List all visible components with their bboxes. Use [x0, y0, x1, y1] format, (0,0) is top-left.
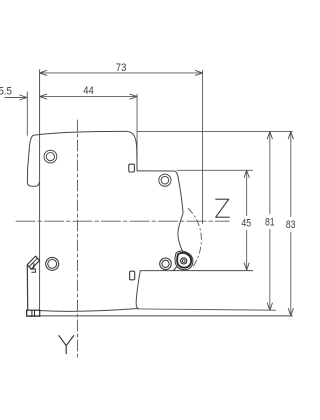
screw circle C2 lower-left inner: [48, 260, 57, 269]
vertical centerline (Y axis): [77, 120, 79, 357]
rail clip tail to step: [173, 267, 176, 270]
DIN clip tab notch: [32, 263, 36, 272]
dimension 83 bottom arrowhead: [288, 309, 293, 316]
terminal slot upper: [129, 164, 135, 172]
dimension 44 right arrowhead: [130, 94, 137, 99]
extension line front bezel face (5.5 left ref): [26, 92, 28, 135]
housing front bezel outer face: [27, 135, 39, 186]
terminal slot lower: [130, 271, 135, 280]
screw circle C1 upper-left outer: [44, 150, 57, 163]
rail clip blob outer outline: [175, 251, 193, 270]
dimension 73 line: [40, 72, 203, 74]
dimension 44 line: [40, 96, 137, 98]
svg-text:44: 44: [83, 85, 94, 97]
dimension 81 bottom arrowhead: [267, 303, 272, 310]
rail clip blob thick inner ring: [177, 253, 191, 268]
extension line x=137 (44 right ref / step edge): [136, 94, 138, 171]
rail clip pivot circle inner: [182, 260, 185, 263]
dimension 45 top arrowhead: [244, 170, 249, 177]
housing right profile curve: [178, 178, 183, 253]
housing top edge with step down: [33, 131, 137, 170]
housing lower-right edge (rail recess side): [136, 271, 140, 309]
DIN clip foot inner lines: [32, 310, 35, 316]
svg-text:83: 83: [286, 219, 296, 231]
extension line body front face x=39.6 (73/44 left ref, runs down as body edge): [39, 70, 41, 310]
phantom dashed arc (clip open position): [188, 209, 201, 267]
dimension 45 bottom arrowhead: [244, 263, 249, 270]
extension line second level y=170.3 (45 top ref): [177, 169, 253, 171]
extension line top of housing y=131.6 (81/83 top ref): [137, 131, 292, 133]
screw circle C4 lower-right outer: [160, 258, 172, 270]
dimension 73 right arrowhead: [195, 70, 202, 75]
label Y: [59, 336, 74, 354]
dimension 5.5 arrowhead: [20, 95, 27, 100]
screw circle C2 lower-left outer: [46, 257, 59, 270]
screw circle C3 upper-right inner: [161, 176, 169, 184]
svg-text:45: 45: [241, 218, 251, 230]
extension line rail step y=270.6 (45 bottom ref): [141, 270, 253, 272]
housing bottom edge: [40, 309, 138, 312]
svg-text:81: 81: [265, 216, 275, 228]
horizontal centerline: [16, 220, 229, 222]
label Z: [216, 199, 230, 217]
svg-text:73: 73: [116, 62, 127, 74]
screw circle C1 upper-left inner: [46, 153, 54, 161]
screw circle C3 upper-right outer: [159, 174, 171, 186]
screw circle C4 lower-right inner: [162, 260, 169, 267]
extension line x=202.5 (73 right ref, back plane): [202, 70, 204, 224]
svg-text:5.5: 5.5: [0, 85, 12, 97]
dimension 83 top arrowhead: [288, 132, 293, 139]
rail clip pivot circle outer: [181, 258, 187, 264]
dimension 45 line: [246, 170, 248, 270]
dimension 5.5 leader line: [5, 97, 27, 99]
base plane line y=315.9 (83 bottom ref): [27, 315, 293, 317]
dimension 81 top arrowhead: [267, 132, 272, 139]
housing front lower face: [26, 265, 28, 310]
housing second level top face: [137, 171, 178, 178]
DIN clip foot box: [27, 310, 40, 316]
DIN clip release tab inner line: [29, 258, 37, 266]
dimension 44 left arrowhead: [40, 94, 47, 99]
DIN clip release tab outer: [27, 256, 39, 269]
dimension 83 line: [290, 132, 292, 316]
extension line housing bottom y=310 (81 bottom ref): [138, 309, 276, 310]
dimension 73 left arrowhead: [40, 70, 47, 75]
dimension 81 line: [269, 132, 271, 311]
